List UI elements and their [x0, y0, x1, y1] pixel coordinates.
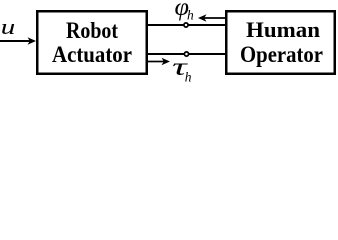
arrow: tau_h direction (rightward) [148, 58, 170, 65]
wire: phi_h line between blocks [147, 24, 226, 26]
svg-text:h: h [187, 8, 194, 23]
node: pickoff circle on phi_h line [184, 23, 188, 27]
svg-text:Human: Human [246, 17, 320, 42]
label phi_h [175, 0, 195, 23]
svg-text:h: h [185, 69, 192, 84]
svg-text:u: u [1, 14, 16, 39]
label tau_h [172, 54, 192, 84]
wire: input u into Robot Actuator [0, 37, 36, 44]
svg-text:Operator: Operator [240, 42, 323, 67]
svg-text:Robot: Robot [66, 18, 118, 43]
node: pickoff circle on tau_h line [184, 52, 188, 56]
wire: tau_h line between blocks [147, 53, 226, 55]
block U2: Human Operator [226, 11, 335, 74]
block U1: Robot Actuator [37, 11, 147, 74]
svg-text:Actuator: Actuator [52, 42, 132, 67]
arrow: phi_h direction (leftward) [198, 14, 225, 21]
